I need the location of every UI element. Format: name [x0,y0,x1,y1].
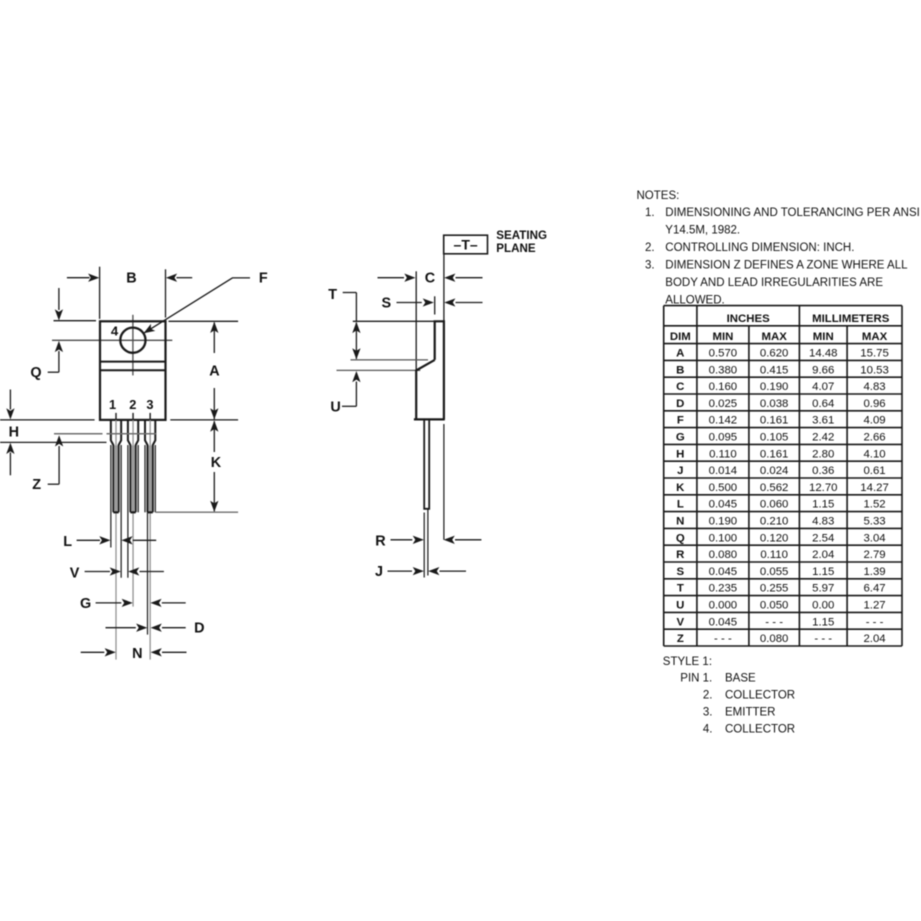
svg-text:5.33: 5.33 [863,516,885,528]
svg-text:DIMENSION Z DEFINES A ZONE WHE: DIMENSION Z DEFINES A ZONE WHERE ALL [665,260,908,272]
svg-text:T: T [328,287,337,303]
dimension Q upper arrow (down) [58,288,60,310]
svg-text:L: L [677,499,684,511]
svg-text:H: H [676,448,684,460]
svg-text:B: B [126,271,136,287]
svg-text:0.045: 0.045 [709,566,738,578]
pin 3 lead bottom cap [148,511,153,513]
svg-text:0.050: 0.050 [760,600,789,612]
svg-text:2.42: 2.42 [812,432,834,444]
svg-text:0.110: 0.110 [760,549,788,561]
package back extension line below [443,424,445,540]
svg-text:C: C [676,381,684,393]
svg-text:0.000: 0.000 [709,600,738,612]
svg-text:0.161: 0.161 [760,415,789,427]
front view: hole centerline horizontal [52,339,172,341]
svg-text:SEATING: SEATING [496,229,547,242]
dimension B right arrow [177,277,193,279]
svg-text:0.105: 0.105 [760,432,789,444]
svg-text:0.380: 0.380 [709,364,738,376]
dimension G right arrow [162,602,186,604]
svg-text:J: J [677,465,683,477]
svg-text:B: B [676,364,684,376]
svg-text:N: N [132,646,142,662]
pin 3 wide-edge left extension line [144,445,146,512]
pin 1 centerline tick [115,413,117,420]
dimension Q elbow [48,371,59,373]
svg-text:1.15: 1.15 [812,566,834,578]
svg-text:0.045: 0.045 [709,499,738,511]
dimension Z elbow [48,483,59,485]
pin 2 lead gray fill [131,446,135,511]
svg-text:6.47: 6.47 [863,583,885,595]
svg-text:R: R [676,549,684,561]
svg-text:0.210: 0.210 [760,516,789,528]
svg-text:2.: 2. [645,242,655,254]
pin 2 lead outline [128,420,130,512]
tab front extension line [434,296,436,314]
dimension N left arrow [81,651,105,653]
body lower tab line [100,369,166,371]
svg-text:4.: 4. [703,724,713,736]
dimension V right arrow [140,571,164,573]
dimension A line upper [213,323,215,354]
front view: hole centerline vertical [132,315,134,376]
svg-text:D: D [194,621,204,637]
svg-text:1.: 1. [645,207,655,219]
dimension H lower arrow (up) [9,453,11,476]
svg-text:2.: 2. [703,690,713,702]
dimension H lower reference line [0,441,107,443]
svg-text:0.64: 0.64 [812,398,834,410]
svg-text:0.562: 0.562 [760,482,789,494]
svg-text:4.83: 4.83 [812,516,834,528]
svg-text:COLLECTOR: COLLECTOR [725,724,795,736]
pin 3 centerline extension [149,420,151,660]
dimension K bottom reference line [156,511,239,513]
pin 1 lead outline [111,420,114,512]
dimension Z arrow (up) [58,446,60,484]
dimension L right arrow [133,539,156,541]
body bottom extension line to left edge [0,419,95,421]
dimension D right arrow [162,627,186,629]
svg-text:MAX: MAX [862,331,888,343]
dimension C right arrow [456,277,483,279]
svg-text:- - -: - - - [714,633,732,645]
dimension K line lower [213,472,215,511]
pin 2 lead bottom cap [130,511,135,513]
svg-text:14.27: 14.27 [860,482,889,494]
svg-text:K: K [211,455,222,471]
pin 1 wide-edge right extension line [120,445,122,578]
front view package body outline [100,321,166,420]
svg-text:1: 1 [109,397,116,412]
svg-text:0.038: 0.038 [760,398,789,410]
svg-text:Z: Z [32,477,41,493]
svg-text:2.54: 2.54 [812,532,834,544]
svg-text:0.142: 0.142 [709,415,738,427]
svg-text:F: F [677,415,684,427]
svg-text:A: A [209,364,220,380]
svg-text:3: 3 [146,397,153,412]
seating plane dashed line [54,433,103,435]
svg-text:COLLECTOR: COLLECTOR [725,690,795,702]
dimension table [664,306,902,646]
svg-text:DIMENSIONING AND TOLERANCING P: DIMENSIONING AND TOLERANCING PER ANSI [665,207,920,219]
svg-text:1.15: 1.15 [812,499,834,511]
svg-text:0.96: 0.96 [863,398,885,410]
svg-text:0.100: 0.100 [709,532,738,544]
svg-text:0.620: 0.620 [760,348,789,360]
svg-text:- - -: - - - [866,616,884,628]
svg-text:BASE: BASE [725,673,756,685]
dimension Q lower arrow (up) [58,351,60,372]
svg-text:4.09: 4.09 [863,415,885,427]
seating plane datum box [444,235,488,254]
svg-text:3.: 3. [645,260,655,272]
svg-text:PIN 1.: PIN 1. [680,673,712,685]
datum extension line from box [443,254,445,321]
svg-text:STYLE 1:: STYLE 1: [663,656,712,668]
svg-text:15.75: 15.75 [860,348,889,360]
dimension S right arrow [456,302,483,304]
svg-text:0.045: 0.045 [709,616,738,628]
svg-text:0.110: 0.110 [709,448,737,460]
pin 3 wide-edge right extension line [154,445,156,512]
dimension Q top tick line [54,320,97,322]
dimension B extension line left [99,267,101,319]
dimension J right arrow [440,570,467,572]
pin 2 centerline tick [132,413,134,420]
pin 3 centerline tick [149,413,151,420]
svg-text:Q: Q [30,365,41,381]
lead front extension line [423,513,425,578]
chamfer top extension line [351,359,429,361]
svg-text:MIN: MIN [712,331,733,343]
svg-text:D: D [676,398,684,410]
svg-text:PLANE: PLANE [496,242,536,255]
svg-text:S: S [676,566,684,578]
dimension D left arrow [106,627,136,629]
pin 1 lead gray fill [114,446,118,511]
svg-text:U: U [676,600,684,612]
svg-text:0.160: 0.160 [709,381,738,393]
lead back extension line [427,510,429,576]
svg-text:BODY AND LEAD IRREGULARITIES A: BODY AND LEAD IRREGULARITIES ARE [665,277,883,289]
svg-text:V: V [70,565,80,581]
pin 2 wide-edge right extension line [137,445,139,512]
dimension B left arrow [67,277,90,279]
dimension U arrow (up) [355,382,357,407]
svg-text:10.53: 10.53 [860,364,889,376]
svg-text:2: 2 [129,397,136,412]
svg-text:0.61: 0.61 [863,465,885,477]
svg-text:12.70: 12.70 [809,482,838,494]
svg-text:0.080: 0.080 [709,549,738,561]
svg-text:T: T [677,583,684,595]
pin 2 centerline extension [132,420,134,607]
svg-text:S: S [381,295,391,311]
svg-text:5.97: 5.97 [812,583,834,595]
svg-text:J: J [375,564,383,580]
svg-text:- - -: - - - [814,633,832,645]
dimension H upper arrow (down) [9,390,11,410]
svg-text:INCHES: INCHES [727,313,770,325]
svg-text:0.570: 0.570 [709,348,738,360]
svg-text:0.36: 0.36 [812,465,834,477]
pin 2 wide-edge left extension line [127,445,129,578]
svg-text:3.: 3. [703,707,713,719]
svg-text:2.66: 2.66 [863,432,885,444]
svg-text:MIN: MIN [813,331,834,343]
dimension C left arrow [378,277,405,279]
svg-text:0.080: 0.080 [760,633,789,645]
svg-text:0.055: 0.055 [760,566,789,578]
svg-text:R: R [375,533,386,549]
dimension K line upper [213,421,215,452]
svg-text:F: F [259,271,268,287]
svg-text:C: C [425,271,435,287]
svg-text:0.190: 0.190 [760,381,789,393]
svg-text:0.00: 0.00 [812,600,834,612]
mounting hole circle [120,328,145,353]
svg-text:N: N [676,516,684,528]
svg-text:0.024: 0.024 [760,465,789,477]
svg-text:0.025: 0.025 [709,398,738,410]
dimension A line lower [213,388,215,419]
pin 3 lead gray fill [148,446,152,511]
svg-text:NOTES:: NOTES: [637,190,680,202]
svg-text:2.04: 2.04 [812,549,834,561]
svg-text:–T–: –T– [454,237,478,253]
front face extension line [415,271,417,370]
body upper tab line [100,361,166,363]
svg-text:ALLOWED.: ALLOWED. [665,295,724,307]
svg-text:1.15: 1.15 [812,616,834,628]
package top extension line [353,320,435,322]
svg-text:0.235: 0.235 [709,583,738,595]
svg-text:MILLIMETERS: MILLIMETERS [812,313,890,325]
pin 1 centerline extension [115,420,117,660]
svg-text:G: G [676,432,685,444]
svg-text:0.255: 0.255 [760,583,789,595]
svg-text:V: V [676,616,684,628]
side view lead outline [424,419,429,508]
svg-text:2.04: 2.04 [863,633,885,645]
svg-text:3.61: 3.61 [812,415,834,427]
svg-text:L: L [63,534,72,550]
pin 3 narrow-edge extension line [147,512,149,634]
pin 1 lead bottom cap [113,511,118,513]
svg-text:1.39: 1.39 [863,566,885,578]
side view body bottom edge [414,418,445,420]
pin 3 lead outline [145,420,148,512]
pin 1 wide-edge left extension line [110,445,112,548]
dimension N right arrow [162,651,187,653]
svg-text:4.83: 4.83 [863,381,885,393]
svg-text:1.52: 1.52 [863,499,885,511]
svg-text:0.415: 0.415 [760,364,789,376]
svg-text:1.27: 1.27 [863,600,885,612]
dimension B extension line right [165,269,167,317]
svg-text:2.79: 2.79 [863,549,885,561]
svg-text:0.500: 0.500 [709,482,738,494]
svg-text:H: H [9,425,19,441]
body bottom extension line right [170,419,238,421]
svg-text:4: 4 [111,324,119,339]
svg-text:K: K [676,482,685,494]
svg-text:U: U [330,399,340,415]
body top extension line right [169,320,239,322]
dimension F leader line [144,278,250,333]
side view package outline [416,321,444,419]
svg-text:- - -: - - - [765,616,783,628]
svg-text:A: A [676,348,684,360]
svg-text:DIM: DIM [670,331,691,343]
svg-text:0.190: 0.190 [709,516,738,528]
svg-text:0.161: 0.161 [760,448,789,460]
svg-text:CONTROLLING DIMENSION: INCH.: CONTROLLING DIMENSION: INCH. [665,242,854,254]
dimension R right arrow [455,539,481,541]
dimension T line with arrows [355,323,357,360]
svg-text:14.48: 14.48 [809,348,838,360]
svg-text:0.120: 0.120 [760,532,789,544]
dimension F arrowhead [141,324,155,337]
svg-text:G: G [80,596,91,612]
svg-text:MAX: MAX [761,331,787,343]
svg-text:EMITTER: EMITTER [725,707,775,719]
svg-text:0.014: 0.014 [709,465,738,477]
svg-text:Y14.5M, 1982.: Y14.5M, 1982. [665,225,740,237]
svg-text:4.07: 4.07 [812,381,834,393]
svg-text:2.80: 2.80 [812,448,834,460]
chamfer bottom extension line [337,369,421,371]
svg-text:0.095: 0.095 [709,432,738,444]
svg-text:Z: Z [677,633,684,645]
svg-text:9.66: 9.66 [812,364,834,376]
svg-text:4.10: 4.10 [863,448,885,460]
svg-text:Q: Q [676,532,685,544]
svg-text:0.060: 0.060 [760,499,789,511]
svg-text:3.04: 3.04 [863,532,885,544]
